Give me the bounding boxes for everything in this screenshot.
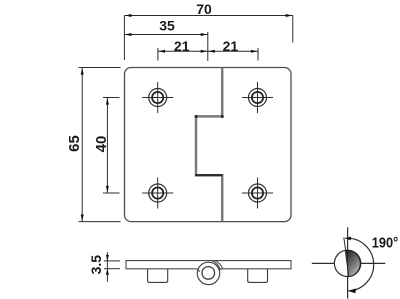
dimension text 65 bbox=[66, 135, 83, 152]
side view left leaf bar bbox=[126, 261, 211, 272]
angle text 190 degrees bbox=[372, 234, 399, 251]
left mounting stud bbox=[148, 269, 168, 283]
dimension line 21 right bbox=[208, 50, 258, 53]
extension line at right hole centerline bbox=[257, 48, 259, 61]
knuckle pin circle bbox=[202, 267, 215, 280]
detail horizontal centerline bbox=[312, 262, 386, 264]
extension line bottom for dim 65 bbox=[79, 221, 121, 223]
190 degree arc with arrows bbox=[344, 237, 373, 294]
dimension line 3.5 bbox=[106, 252, 109, 281]
extension line at left hole centerline bbox=[157, 48, 159, 61]
svg-text:21: 21 bbox=[223, 38, 239, 54]
extension line top for dim 3.5 bbox=[104, 260, 120, 262]
knuckle curl diagonal arcs bbox=[212, 261, 224, 271]
hole top-left bbox=[142, 82, 173, 113]
dimension text 21 left bbox=[174, 38, 190, 54]
dimension text 70 bbox=[196, 1, 212, 17]
extension line right of dim 70 bbox=[292, 16, 294, 43]
extension line bottom for dim 3.5 bbox=[104, 268, 120, 270]
knuckle cut line between leaves bbox=[195, 68, 224, 222]
dimension line 65 bbox=[81, 68, 84, 222]
detail circle (pin end view) bbox=[334, 250, 360, 276]
extension line top for dim 65 bbox=[79, 67, 121, 69]
rotated position radius line bbox=[344, 238, 348, 264]
svg-text:190°: 190° bbox=[372, 234, 399, 251]
hole bottom-left bbox=[142, 178, 173, 209]
dimension line 35 bbox=[124, 33, 207, 36]
extension line left of dim 70 bbox=[123, 16, 125, 61]
extension line bottom for dim 40 bbox=[103, 192, 120, 194]
svg-text:3.5: 3.5 bbox=[88, 255, 104, 275]
dimension line 21 left bbox=[158, 50, 208, 53]
right mounting stud bbox=[248, 269, 268, 283]
hole top-right bbox=[242, 82, 273, 113]
dimension text 21 right bbox=[223, 38, 239, 54]
svg-text:40: 40 bbox=[93, 136, 110, 153]
shaded half disc bbox=[345, 250, 360, 276]
dimension text 40 bbox=[93, 136, 110, 153]
dimension line 70 bbox=[124, 14, 292, 17]
side view right leaf bar bbox=[211, 261, 291, 269]
detail vertical centerline bbox=[347, 227, 349, 298]
side view knuckle outer circle bbox=[197, 262, 219, 284]
svg-text:65: 65 bbox=[66, 135, 83, 152]
hole bottom-right bbox=[242, 178, 273, 209]
svg-text:21: 21 bbox=[174, 38, 190, 54]
extension line center (dim 35 / 21) bbox=[207, 32, 209, 61]
plate outline (hinge top view) bbox=[125, 68, 292, 222]
svg-text:70: 70 bbox=[196, 1, 212, 17]
extension line top for dim 40 bbox=[103, 97, 120, 99]
dimension line 40 bbox=[106, 98, 109, 194]
svg-text:35: 35 bbox=[159, 18, 175, 34]
dimension text 3.5 bbox=[88, 255, 104, 275]
dimension text 35 bbox=[159, 18, 175, 34]
